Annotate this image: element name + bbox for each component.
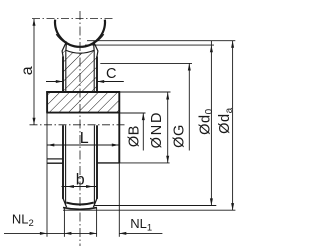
rim right inner (root) line bbox=[93, 50, 95, 92]
rim lip wedge left bbox=[62, 42, 66, 58]
extension line G top bbox=[100, 62, 192, 64]
dimension OG: line bbox=[188, 63, 190, 150]
svg-text:Øda: Øda bbox=[217, 107, 235, 134]
rim right outer wall bbox=[96, 57, 98, 93]
b right arrow bbox=[86, 185, 93, 188]
vertical centerline (dash-dot) bbox=[79, 11, 81, 246]
throat arc (wheel tip surface hugging worm) bbox=[56, 34, 104, 47]
dimension OB: line bbox=[142, 113, 144, 151]
dimension Od0: line bbox=[210, 41, 212, 206]
right extension line (x=119.3) below hub bbox=[118, 163, 120, 237]
svg-text:NL1: NL1 bbox=[130, 216, 152, 233]
left extension line (x=47) below flange bbox=[46, 113, 48, 237]
b left arrow bbox=[67, 185, 74, 188]
svg-text:L: L bbox=[80, 130, 89, 147]
svg-text:ØB: ØB bbox=[127, 125, 143, 147]
lower view: rim left face bbox=[62, 125, 64, 199]
flange right wall (continues below axis as hub face) bbox=[118, 91, 120, 163]
bottom lip chamfer right bbox=[93, 198, 97, 207]
extension line ND bottom bbox=[119, 162, 169, 164]
flange left wall bbox=[46, 91, 48, 112]
extension line ND top bbox=[120, 91, 170, 93]
svg-text:Ød0: Ød0 bbox=[197, 108, 215, 135]
svg-text:a: a bbox=[19, 66, 36, 75]
rim left inner (root) line bbox=[65, 50, 67, 92]
svg-text:ØG: ØG bbox=[172, 124, 188, 148]
worm circle (mating worm cross-section) bbox=[55, 20, 105, 47]
extension line x=64.4 (NL2 right) bbox=[63, 208, 65, 237]
L left arrow bbox=[47, 144, 54, 147]
extension line d0 top bbox=[85, 44, 214, 46]
lower view: rim right face bbox=[96, 125, 98, 199]
lower view: rim right inner edge bbox=[93, 125, 95, 204]
dimension NL1: arrows bbox=[90, 232, 97, 235]
lower view: hub bottom edge right bbox=[97, 162, 119, 164]
worm axis centerline (dash-dot) bbox=[32, 18, 115, 20]
svg-text:ØND: ØND bbox=[149, 111, 165, 149]
wheel axis centerline (dash-dot) bbox=[30, 124, 128, 126]
flange bottom / bore line bbox=[46, 112, 120, 114]
svg-text:b: b bbox=[76, 172, 85, 189]
extension line d0 bottom bbox=[94, 205, 216, 207]
dimension C: right arrow segment bbox=[97, 81, 124, 83]
dimension C: left arrow segment bbox=[46, 81, 63, 83]
extension line B top bbox=[120, 112, 145, 114]
bottom throat arc bbox=[66, 203, 93, 205]
dimension a: line bbox=[33, 19, 35, 125]
lower view: hub bottom edge left (upper line) bbox=[47, 158, 63, 160]
lower view: hub bottom edge left (lower line) bbox=[47, 162, 63, 164]
L right arrow bbox=[112, 144, 119, 147]
svg-text:C: C bbox=[106, 66, 116, 82]
rim hatching bbox=[63, 50, 97, 92]
dimension OND: line bbox=[167, 92, 169, 162]
lower view: rim left inner edge bbox=[65, 125, 67, 204]
bottom tip-diameter arc (da silhouette) bbox=[63, 208, 97, 210]
extension line da top bbox=[87, 40, 235, 42]
extension line da bottom bbox=[63, 209, 235, 211]
bottom lip chamfer left bbox=[63, 198, 67, 207]
dimension a: top arrow bbox=[33, 19, 36, 26]
rim lip wedge right bbox=[94, 42, 98, 58]
flange hatching bbox=[47, 92, 119, 113]
flange top edge bbox=[46, 91, 120, 93]
dimension Oda: line bbox=[232, 41, 234, 211]
dimension L: line bbox=[47, 144, 119, 146]
svg-text:NL2: NL2 bbox=[12, 212, 34, 229]
dimension b: line bbox=[62, 186, 98, 188]
rim left outer wall bbox=[62, 57, 64, 93]
throat arc 2 (tooth root arc) bbox=[66, 50, 94, 53]
dimension NL2: line + arrows bbox=[4, 232, 97, 234]
dimension a: bottom arrow bbox=[33, 118, 36, 125]
extension line x=96.6 (NL1 left) bbox=[96, 208, 98, 237]
